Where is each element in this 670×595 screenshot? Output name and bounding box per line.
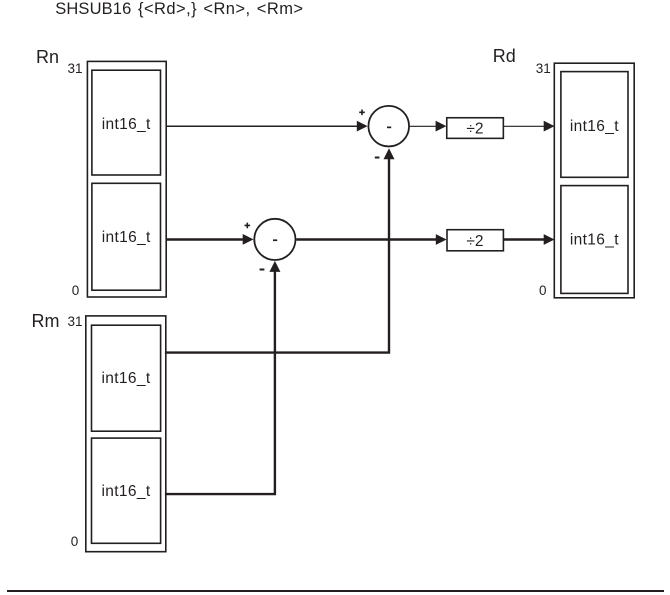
register Rd bottom halfword box bbox=[561, 186, 628, 294]
svg-text:31: 31 bbox=[536, 61, 551, 76]
wire Rm top halfword to subtractor S1 (horizontal+vertical) bbox=[165, 154, 389, 353]
arrowhead into Rd bottom bbox=[544, 234, 555, 245]
wire Rm bottom halfword to subtractor S2 (horizontal+vertical) bbox=[165, 267, 275, 494]
wire D2 to Rd bottom halfword bbox=[504, 238, 545, 240]
arrowhead into S2 left bbox=[243, 234, 254, 245]
register Rn bottom halfword box bbox=[92, 183, 161, 290]
svg-text:0: 0 bbox=[539, 283, 547, 298]
subtractor S2 circle bbox=[254, 219, 295, 260]
svg-text:SHSUB16: SHSUB16 bbox=[55, 0, 131, 18]
label plus at S2 input bbox=[245, 223, 251, 229]
divider D2 box bbox=[447, 230, 503, 251]
arrowhead into S1 bottom bbox=[384, 148, 395, 159]
arrowhead into S2 bottom bbox=[269, 261, 280, 272]
footer rule bbox=[7, 590, 664, 592]
arrowhead into D2 bbox=[436, 234, 447, 245]
wire S2 to divider D2 bbox=[296, 238, 437, 240]
svg-text:int16_t: int16_t bbox=[570, 232, 619, 249]
svg-text:int16_t: int16_t bbox=[570, 118, 619, 135]
svg-text:Rd: Rd bbox=[493, 46, 516, 66]
svg-text:0: 0 bbox=[72, 283, 80, 298]
svg-text:0: 0 bbox=[71, 534, 79, 549]
svg-text:31: 31 bbox=[68, 61, 83, 76]
register Rn outer box bbox=[87, 61, 166, 297]
arrowhead into D1 bbox=[436, 121, 447, 132]
label minus at S2 bottom input bbox=[260, 269, 265, 271]
wire S1 to divider D1 bbox=[410, 125, 437, 127]
svg-text:÷2: ÷2 bbox=[466, 120, 483, 137]
svg-text:{<Rd>,} <Rn>, <Rm>: {<Rd>,} <Rn>, <Rm> bbox=[138, 0, 304, 18]
svg-text:31: 31 bbox=[68, 314, 83, 329]
svg-text:÷2: ÷2 bbox=[466, 233, 483, 250]
register Rd outer box bbox=[554, 63, 634, 298]
register Rm outer box bbox=[86, 316, 166, 552]
label plus at S1 input bbox=[359, 110, 365, 116]
svg-text:int16_t: int16_t bbox=[102, 483, 151, 500]
register Rd top halfword box bbox=[561, 72, 628, 178]
svg-text:int16_t: int16_t bbox=[102, 229, 151, 246]
register Rm top halfword box bbox=[92, 325, 161, 431]
label minus inside S1 bbox=[387, 127, 391, 129]
wire D1 to Rd top halfword bbox=[504, 125, 545, 127]
register Rn top halfword box bbox=[92, 70, 161, 175]
wire Rn bottom halfword to subtractor S2 bbox=[166, 238, 245, 240]
svg-text:int16_t: int16_t bbox=[102, 370, 151, 387]
arrowhead into S1 left bbox=[357, 121, 368, 132]
arrowhead into Rd top bbox=[544, 121, 555, 132]
register Rm bottom halfword box bbox=[92, 438, 161, 543]
subtractor S1 circle bbox=[368, 106, 409, 147]
svg-text:Rm: Rm bbox=[32, 311, 60, 331]
divider D1 box bbox=[447, 118, 504, 139]
label minus inside S2 bbox=[273, 239, 277, 241]
svg-text:int16_t: int16_t bbox=[102, 116, 151, 133]
wire Rn top halfword to subtractor S1 bbox=[166, 125, 359, 127]
label minus at S1 bottom input bbox=[375, 157, 380, 159]
svg-text:Rn: Rn bbox=[36, 47, 59, 67]
